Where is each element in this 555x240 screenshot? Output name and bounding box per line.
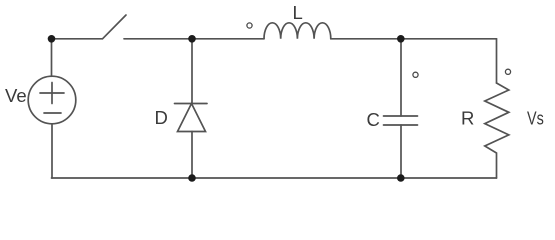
svg-text:L: L: [293, 2, 303, 23]
svg-text:R: R: [461, 108, 474, 129]
svg-text:C: C: [367, 109, 380, 130]
svg-text:Ve: Ve: [5, 85, 27, 106]
svg-text:Vs: Vs: [527, 108, 544, 129]
svg-text:D: D: [155, 107, 168, 128]
